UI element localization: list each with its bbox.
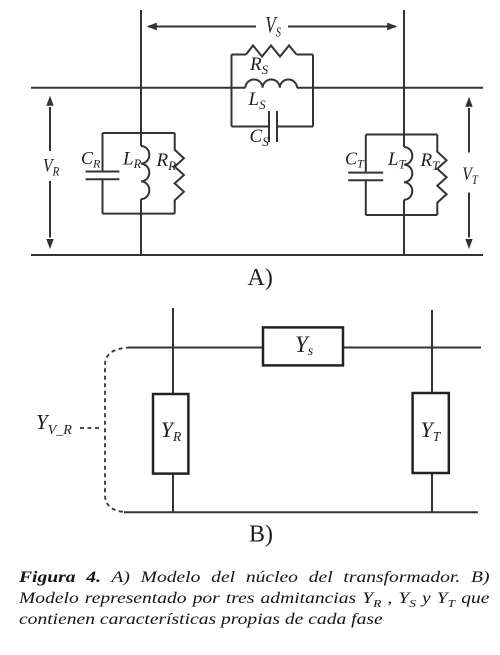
- wire: right box top edge: [366, 134, 438, 136]
- label CS: [250, 126, 270, 149]
- inductor L_S arcs: [245, 80, 297, 88]
- svg-text:VR: VR: [43, 154, 60, 179]
- wire: series branch left vertical: [231, 55, 233, 127]
- svg-text:LT: LT: [387, 149, 407, 172]
- wire: left box top edge: [103, 132, 175, 134]
- wire: B left vertical upper: [172, 308, 174, 394]
- label CR: [81, 148, 101, 170]
- svg-text:CR: CR: [81, 148, 101, 170]
- label LR: [122, 149, 142, 172]
- label RR: [156, 150, 177, 173]
- svg-text:LS: LS: [248, 89, 267, 112]
- capacitor CR: [86, 133, 120, 214]
- resistor RT: [437, 135, 446, 216]
- wire: left box bottom edge: [103, 213, 175, 215]
- inductor L_R arcs: [141, 146, 149, 199]
- svg-text:A): A): [248, 265, 273, 291]
- label LS: [248, 89, 267, 112]
- label VT: [462, 163, 479, 188]
- label YT: [421, 417, 442, 444]
- arrowhead VT bottom: [465, 239, 472, 249]
- wire: series branch right vertical: [312, 55, 314, 127]
- svg-text:RT: RT: [420, 150, 441, 173]
- label RT: [420, 150, 441, 173]
- svg-text:YT: YT: [421, 417, 442, 444]
- resistor RS: [246, 46, 297, 57]
- svg-text:YR: YR: [161, 417, 182, 444]
- wire: B right vertical upper: [431, 310, 433, 393]
- label B): [249, 522, 273, 548]
- svg-text:VT: VT: [462, 163, 479, 188]
- svg-text:Ys: Ys: [295, 332, 314, 359]
- label YR: [161, 417, 182, 444]
- admittance box Ys: [263, 327, 343, 365]
- arrowhead VS right: [387, 23, 397, 31]
- wire: left vertical bus lower: [140, 199, 142, 255]
- label A): [248, 265, 273, 291]
- wire: VR arrow shaft: [49, 107, 51, 238]
- label YV_R: [36, 410, 72, 438]
- dashed bracket: [105, 348, 130, 513]
- svg-text:CS: CS: [250, 126, 270, 149]
- wire: YR bottom stub: [172, 474, 174, 513]
- arrowhead VR bottom: [46, 239, 53, 249]
- svg-text:RR: RR: [156, 150, 177, 173]
- capacitor CT: [348, 135, 383, 216]
- wire: RS left lead: [232, 54, 247, 56]
- svg-text:VS: VS: [265, 13, 281, 40]
- admittance box YR: [153, 394, 188, 474]
- svg-text:LR: LR: [122, 149, 142, 172]
- label LT: [387, 149, 407, 172]
- arrowhead VR top: [46, 96, 53, 106]
- wire: VS arrow shaft: [148, 26, 396, 28]
- svg-text:B): B): [249, 522, 273, 548]
- figure caption: [19, 567, 489, 630]
- label CT: [345, 149, 365, 171]
- wire: CS left lead: [232, 126, 270, 128]
- wire: B top line left of Ys: [128, 347, 263, 349]
- wire: right box bottom edge: [366, 214, 438, 216]
- wire: left vertical bus upper: [140, 10, 142, 146]
- svg-text:RS: RS: [249, 54, 269, 77]
- resistor RR: [175, 133, 184, 214]
- wire: VT arrow shaft: [468, 108, 470, 238]
- capacitor CS: [269, 111, 277, 142]
- dashed connector to YV_R: [80, 427, 102, 429]
- label VR: [43, 154, 60, 179]
- wire: RS right lead: [297, 54, 314, 56]
- wire: top bus right segment: [297, 87, 483, 89]
- wire: YT bottom stub: [431, 473, 433, 512]
- label VS: [265, 13, 281, 40]
- wire: top bus left segment: [31, 87, 245, 89]
- wire: B bottom line: [124, 511, 478, 513]
- label RS: [249, 54, 269, 77]
- svg-text:CT: CT: [345, 149, 365, 171]
- wire: right vertical bus lower: [403, 200, 405, 255]
- wire: bottom bus: [31, 254, 483, 256]
- wire: CS right lead: [277, 126, 313, 128]
- admittance box YT: [413, 393, 449, 473]
- arrowhead VS left: [147, 23, 157, 31]
- wire: B top line right of Ys: [343, 347, 481, 349]
- label Ys: [295, 332, 314, 359]
- svg-text:YV_R: YV_R: [36, 410, 72, 438]
- inductor L_T arcs: [404, 147, 412, 200]
- arrowhead VT top: [465, 97, 472, 107]
- wire: right vertical bus upper: [403, 10, 405, 147]
